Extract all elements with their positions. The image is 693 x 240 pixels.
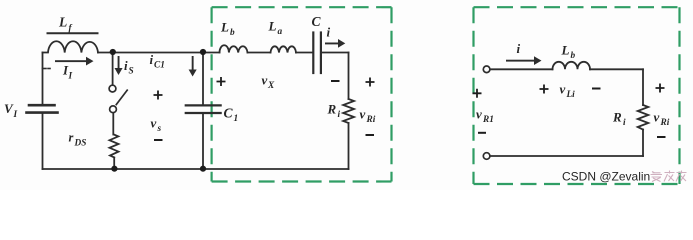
dashed measurement box 2 [474,7,680,184]
label vs [151,116,162,135]
svg-text:i: i [338,110,341,120]
node tick on left wire [43,68,47,70]
arrow II under Lf [55,57,94,66]
wire: La to C [296,52,312,54]
dashed measurement box 1 [212,7,392,181]
label i (circuit 2) [517,41,521,56]
label vX [262,73,276,92]
svg-text:R: R [327,102,337,117]
label rDS [69,131,87,149]
wire: bottom rail [43,168,349,170]
svg-text:L: L [561,43,570,58]
svg-text:Li: Li [566,90,576,100]
minus vX [331,80,340,82]
svg-text:f: f [69,24,73,34]
svg-text:I: I [13,110,18,120]
inductor Lb [220,45,248,52]
svg-text:v: v [476,107,482,122]
svg-text:R1: R1 [482,115,494,125]
label Lb [220,20,235,39]
svg-text:i: i [517,41,521,56]
terminal circle top (circuit 2) [483,66,490,73]
wire: left vertical (Vi branch bottom) [42,114,44,169]
svg-text:Ri: Ri [366,115,376,125]
node dot top of switch [110,49,116,55]
wire: right vertical upper [348,53,350,100]
minus vLi [592,88,601,90]
arrow i (right, after C) [325,39,345,48]
wire: rDS to bottom rail [113,157,115,169]
svg-text:r: r [69,131,74,145]
inductor Lf [43,41,99,52]
label La [268,19,283,38]
svg-text:L: L [220,20,229,35]
plus vs [154,91,163,100]
svg-text:C: C [224,106,234,121]
svg-text:C1: C1 [154,61,165,71]
svg-text:v: v [360,107,366,122]
label VI [4,101,18,120]
svg-text:L: L [58,15,67,30]
label vR1 [476,107,494,126]
label C [312,14,322,29]
label iC1 [150,52,165,71]
label vRi (circuit 2) [654,110,670,129]
plus vR1 [473,89,482,98]
watermark CJK glyphs [651,171,687,182]
wire: Lb to La [248,52,271,54]
arrow i (circuit 2) [506,56,542,65]
svg-text:s: s [157,124,162,134]
wire: top left to Lb [490,68,553,70]
wire: C1 branch lower [202,114,204,169]
wire: Lb to right corner [590,68,643,70]
node dot bottom of rDS [111,166,117,172]
plus vLi [540,85,549,94]
svg-text:Ri: Ri [660,118,670,128]
switch blade [116,90,127,104]
svg-text:v: v [262,73,268,88]
inductor Lb (circuit 2) [553,62,591,69]
capacitor C1 plates [186,105,221,113]
svg-text:C: C [312,14,322,29]
minus vRi (circuit 2) [657,136,666,138]
inductor La [271,46,297,52]
svg-text:1: 1 [234,114,239,124]
resistor Ri [343,99,354,123]
capacitor C plates [313,33,321,74]
svg-text:i: i [150,52,154,67]
watermark CSDN [562,170,650,184]
label Lb (circuit 2) [561,43,576,62]
svg-text:b: b [230,28,235,38]
arrow iS (down) [115,56,123,75]
label Lf [58,15,73,34]
wire: left vertical (Vi branch top) [42,53,44,104]
svg-text:X: X [267,81,275,91]
plus vRi (box1) [366,78,375,87]
label iS [124,58,134,77]
label II [62,63,73,82]
source VI plates [27,105,58,112]
svg-text:b: b [571,51,576,61]
svg-text:i: i [327,25,331,40]
wire: top rail Lf to C1 node [98,52,220,54]
wire: right vertical lower [348,123,350,169]
svg-text:S: S [129,67,134,77]
wire: C1 branch upper [202,53,204,105]
wire: switch branch upper [112,53,114,86]
label vLi [560,82,576,101]
plus vX [217,77,226,86]
wire: bottom (circuit 2) [490,155,643,157]
label vRi (box1) [360,107,376,126]
wire: right vertical upper (circuit 2) [642,69,644,105]
wire: right vertical lower (circuit 2) [642,130,644,157]
svg-text:I: I [68,72,73,82]
svg-text:CSDN @Zevalin: CSDN @Zevalin [562,170,650,184]
switch contact upper circle [109,85,116,92]
minus vR1 [478,132,486,134]
wire: switch to rDS [112,113,114,135]
label Ri (circuit 2) [612,110,626,129]
svg-text:DS: DS [74,139,87,149]
label Ri (box1) [327,102,341,121]
svg-text:i: i [623,118,626,128]
svg-text:R: R [612,110,622,125]
resistor Ri (circuit 2) [638,105,649,130]
minus vs [154,139,163,141]
arrow iC1 (down) [189,56,197,77]
label C1 [224,106,239,125]
svg-text:v: v [560,82,566,97]
svg-text:V: V [4,101,14,116]
wire: C to right corner [322,52,349,54]
svg-text:v: v [654,110,660,125]
plus vRi (circuit 2) [656,84,665,93]
svg-text:L: L [268,19,277,34]
minus vRi (box1) [366,134,375,136]
resistor rDS [110,135,119,158]
node dot top of C1 [200,49,206,55]
node dot bottom of C1 [200,166,206,172]
terminal circle bottom (circuit 2) [483,153,490,160]
svg-text:i: i [124,58,128,73]
svg-text:a: a [278,27,283,37]
switch contact lower circle [110,106,117,113]
label i (box1) [327,25,331,40]
svg-text:v: v [151,116,157,131]
inductor Lf core bar [48,32,98,34]
